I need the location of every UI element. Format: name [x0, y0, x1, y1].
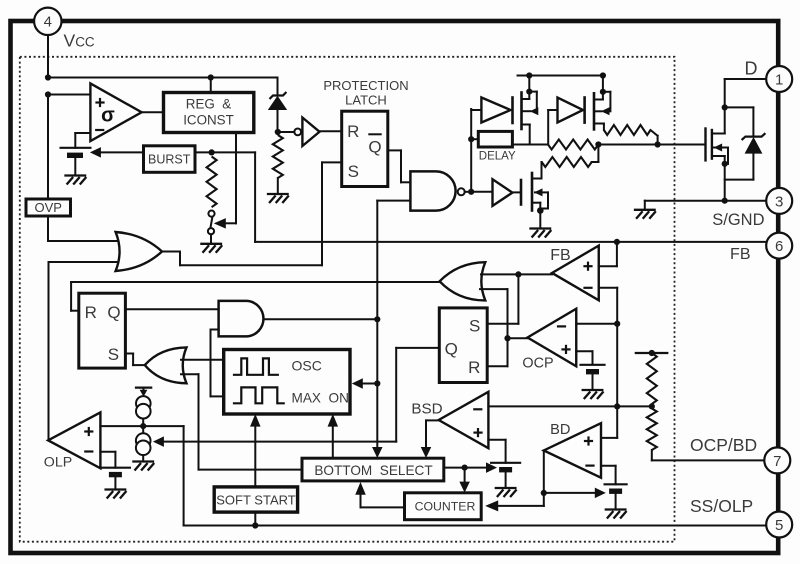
svg-text:PROTECTION: PROTECTION: [323, 78, 408, 93]
svg-text:S: S: [348, 162, 359, 181]
svg-text:6: 6: [775, 238, 783, 255]
svg-text:D: D: [745, 59, 758, 79]
svg-text:COUNTER: COUNTER: [415, 500, 476, 514]
svg-text:DELAY: DELAY: [479, 150, 516, 162]
svg-text:BURST: BURST: [148, 153, 191, 167]
svg-text:OCP/BD: OCP/BD: [690, 435, 757, 455]
svg-text:Q: Q: [368, 138, 381, 157]
svg-text:BOTTOM SELECT: BOTTOM SELECT: [314, 463, 432, 478]
svg-text:R: R: [347, 122, 359, 141]
svg-text:FB: FB: [730, 246, 750, 263]
svg-text:OLP: OLP: [44, 455, 72, 471]
svg-text:R: R: [85, 303, 97, 322]
svg-text:FB: FB: [550, 247, 570, 264]
svg-text:SS/OLP: SS/OLP: [690, 496, 753, 516]
svg-text:1: 1: [775, 71, 783, 88]
svg-text:5: 5: [775, 517, 783, 534]
svg-text:4: 4: [44, 14, 52, 31]
svg-text:S/GND: S/GND: [712, 211, 764, 229]
svg-text:OCP: OCP: [522, 355, 553, 371]
svg-text:S: S: [108, 345, 119, 364]
svg-text:OVP: OVP: [34, 200, 61, 215]
svg-text:REG &: REG &: [186, 97, 231, 112]
svg-text:OSC: OSC: [292, 358, 322, 374]
svg-text:σ: σ: [101, 105, 115, 127]
svg-text:BD: BD: [550, 422, 570, 438]
svg-text:MAX ON: MAX ON: [292, 390, 349, 405]
svg-text:BSD: BSD: [411, 400, 442, 417]
svg-text:Q: Q: [445, 340, 458, 359]
svg-text:R: R: [468, 358, 480, 377]
svg-text:SOFT START: SOFT START: [216, 493, 296, 508]
svg-text:Q: Q: [107, 303, 120, 322]
svg-text:LATCH: LATCH: [345, 93, 387, 108]
svg-text:3: 3: [775, 193, 783, 210]
svg-text:S: S: [469, 317, 480, 336]
svg-text:7: 7: [773, 453, 781, 470]
svg-text:ICONST: ICONST: [183, 113, 234, 128]
